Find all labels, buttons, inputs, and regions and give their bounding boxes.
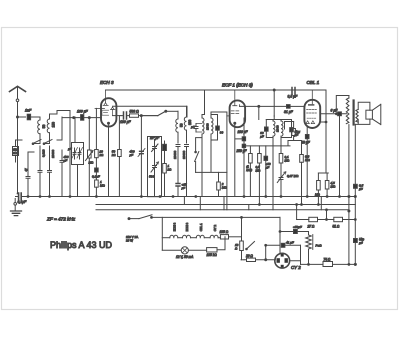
- svg-text:150: 150: [52, 122, 56, 128]
- svg-text:250 µF: 250 µF: [236, 149, 248, 153]
- wire IF1 return: [196, 140, 227, 172]
- wire IF1 to ECF1 grid: [211, 112, 227, 116]
- resistor 500 ohm: [130, 114, 142, 117]
- svg-text:ECH 3: ECH 3: [185, 222, 189, 231]
- electrolytic +50uF right: [354, 238, 365, 245]
- wire IF1 secondary frame: [211, 115, 218, 141]
- svg-text:0,07 MΩ: 0,07 MΩ: [287, 174, 299, 178]
- capacitor 0.1uF in chassis lead: [18, 193, 25, 200]
- band switch S1: [32, 140, 41, 145]
- volume pot with arrow: [277, 172, 286, 197]
- cap +25uF: [176, 184, 180, 197]
- resistor 4.5M a: [315, 173, 320, 205]
- electrolytic 50uF: [264, 146, 271, 197]
- svg-text:500: 500: [149, 175, 154, 179]
- ECF1 cathode leg: [235, 127, 242, 197]
- svg-text:3,5 µF: 3,5 µF: [288, 95, 299, 99]
- ECH3 anode wire: [113, 106, 188, 117]
- wire IF1 switch branch: [196, 138, 202, 173]
- CBL1 cathode: [306, 128, 308, 135]
- speaker LS: [366, 104, 381, 124]
- vertical 347.8 transformer return: [348, 210, 350, 212]
- svg-text:µF: µF: [64, 159, 68, 163]
- wire rail to IF2: [273, 90, 275, 116]
- transformer core: [353, 101, 355, 125]
- svg-text:1M: 1M: [296, 130, 301, 134]
- svg-text:90: 90: [220, 131, 224, 135]
- svg-text:MΩ: MΩ: [100, 183, 105, 187]
- CY2 rectifier V4: [275, 253, 290, 268]
- svg-text:0,1µF: 0,1µF: [18, 200, 28, 204]
- ECF1 grid return: [226, 116, 228, 210]
- switch near dropper: [246, 242, 255, 250]
- svg-text:100 µF: 100 µF: [77, 110, 89, 114]
- osc switch: [158, 110, 167, 115]
- CBL1 screen feed: [320, 121, 326, 123]
- power line bottom left: [241, 259, 244, 261]
- svg-text:100 µF: 100 µF: [238, 130, 249, 134]
- junction dots on buses: [69, 196, 71, 198]
- cap 47: [24, 152, 30, 193]
- chassis bus: [24, 196, 355, 198]
- svg-text:12 V, 50 mA: 12 V, 50 mA: [176, 255, 193, 259]
- svg-text:1000: 1000: [205, 123, 209, 130]
- resistor 27 ohm: [307, 217, 318, 228]
- output transformer T1 primary: [320, 96, 349, 265]
- CY2 right to bottom line: [290, 261, 301, 265]
- bottom power line: [301, 263, 356, 265]
- resistor 51 ohm: [333, 217, 343, 228]
- rail corner down to resistors: [325, 90, 327, 173]
- resistor 4.5M b: [325, 173, 336, 197]
- svg-text:µF: µF: [191, 125, 195, 129]
- resistor R a: [246, 146, 252, 197]
- resistor 1M: [13, 140, 19, 162]
- svg-text:0,010: 0,010: [42, 149, 46, 157]
- bus B: [96, 204, 355, 206]
- svg-text:51 Ω: 51 Ω: [333, 224, 340, 228]
- capacitor 1nF: [27, 114, 40, 120]
- small resistor on dark column: [163, 164, 172, 197]
- lamp: [181, 247, 188, 254]
- IF1 padder cap: [191, 124, 198, 133]
- IF1 tuning cap: [216, 121, 224, 135]
- wire antenna to input: [18, 116, 26, 118]
- osc coil La: [176, 111, 184, 143]
- svg-text:Philips A 43 UD: Philips A 43 UD: [50, 240, 113, 250]
- svg-text:+50µF: +50µF: [293, 225, 302, 229]
- AVC resistor on IF return: [217, 172, 228, 196]
- antenna coil L1: [38, 117, 46, 140]
- svg-text:50: 50: [180, 123, 184, 127]
- caps 10000: [173, 145, 180, 184]
- svg-text:185 Ω: 185 Ω: [220, 230, 229, 234]
- heater CY2: [210, 225, 218, 238]
- svg-text:ECH 3: ECH 3: [173, 222, 177, 231]
- cap 6uF: [338, 112, 347, 197]
- 41uF line: [266, 245, 280, 259]
- drops from buses region verticals: [184, 197, 321, 220]
- svg-text:µF: µF: [266, 165, 270, 169]
- CBL1 tube U3: [304, 90, 320, 128]
- cap 0.5uF right: [354, 124, 364, 264]
- ECH3 tube U1: [95, 90, 116, 127]
- resistor 20k: [95, 150, 99, 158]
- switch on heater line: [139, 215, 152, 219]
- band switch S2: [43, 140, 52, 145]
- dropper resistor vertical: [235, 217, 243, 259]
- svg-text:CBL 1: CBL 1: [307, 80, 320, 85]
- node anode junction: [258, 105, 260, 107]
- CY2 top feed: [279, 217, 281, 253]
- wire ECF1 anode: [240, 105, 287, 107]
- top rail cap 3.5uF: [292, 88, 295, 95]
- wire antenna down to chassis: [17, 117, 19, 194]
- svg-text:MΩ: MΩ: [315, 193, 320, 197]
- padding trimmer box: [72, 143, 84, 165]
- wire IF1 primary leg: [201, 143, 203, 197]
- wires grid left rf: [57, 111, 70, 197]
- ground: [11, 211, 22, 216]
- cap 10000 column2: [48, 146, 56, 193]
- wire top of L2: [50, 111, 58, 115]
- heater feed line 27/51: [297, 219, 356, 221]
- svg-text:1nF: 1nF: [25, 109, 32, 113]
- osc coil Lb: [184, 106, 192, 143]
- svg-text:PαΩ: PαΩ: [316, 244, 323, 248]
- heater top line: [129, 217, 280, 218]
- svg-text:kΩ: kΩ: [168, 167, 173, 171]
- diode load resistor: [292, 122, 301, 141]
- svg-text:µF: µF: [182, 186, 186, 190]
- cap 0.010 column1: [38, 146, 46, 193]
- resistor 50k: [118, 150, 122, 157]
- resistor 20 ohm: [244, 254, 275, 262]
- misc verticals to chassis: [74, 117, 76, 143]
- svg-text:MΩ: MΩ: [305, 158, 310, 162]
- svg-text:µF: µF: [130, 153, 134, 157]
- cap 0.1uF on x96: [92, 168, 100, 179]
- svg-text:185 kΩ: 185 kΩ: [207, 253, 218, 257]
- CBL1 grid wire: [290, 105, 304, 107]
- heater ECH3: [170, 222, 178, 237]
- svg-text:MΩ: MΩ: [256, 168, 261, 172]
- barretter: [306, 232, 323, 265]
- svg-text:pF: pF: [259, 134, 264, 138]
- svg-text:ZF = 472 kHz: ZF = 472 kHz: [46, 217, 76, 222]
- antenna: [10, 86, 26, 117]
- svg-text:µF: µF: [68, 147, 72, 151]
- svg-text:MΩ: MΩ: [285, 158, 290, 162]
- svg-text:MΩ): MΩ): [246, 168, 252, 172]
- resistor 74 ohm: [323, 258, 333, 267]
- svg-text:47: 47: [24, 168, 28, 172]
- svg-text:CY 2: CY 2: [291, 265, 301, 270]
- svg-text:kΩ: kΩ: [112, 153, 117, 157]
- svg-text:27 Ω: 27 Ω: [307, 224, 315, 228]
- svg-text:180 µF: 180 µF: [120, 120, 132, 124]
- shield box: [148, 137, 162, 197]
- wire L1 bottom to switch: [33, 140, 40, 144]
- svg-text:10000: 10000: [173, 150, 177, 159]
- svg-text:20 Ω: 20 Ω: [245, 254, 253, 258]
- bus C: [96, 209, 349, 211]
- potentiometer MOhm: [86, 150, 94, 161]
- svg-text:µF: µF: [359, 187, 363, 191]
- antenna coil L2: [47, 114, 55, 140]
- svg-text:MΩ: MΩ: [331, 184, 336, 188]
- svg-text:50: 50: [42, 124, 46, 128]
- connector: [14, 203, 17, 206]
- resistor 185 ohm: [220, 230, 242, 239]
- cathode chain caps: [243, 118, 245, 137]
- svg-text:10000: 10000: [182, 150, 186, 159]
- svg-text:74 Ω: 74 Ω: [324, 258, 331, 262]
- resistor 0.6M right of CBL1 cathode: [294, 141, 302, 155]
- svg-text:1000: 1000: [276, 125, 280, 132]
- svg-text:CY 2: CY 2: [213, 225, 217, 232]
- switch IF1 branch: [195, 151, 199, 161]
- cap 488 pF: [60, 150, 69, 197]
- svg-text:10000: 10000: [51, 149, 55, 158]
- screen feed wires mid: [204, 90, 206, 98]
- trimmer a: [152, 140, 159, 161]
- svg-text:31 µF: 31 µF: [284, 110, 294, 114]
- trimmer cap 400uF on x141: [138, 116, 145, 197]
- top rail: [106, 89, 327, 91]
- svg-text:41 µF: 41 µF: [286, 241, 294, 245]
- pot 500 in box: [151, 160, 159, 197]
- output wire of ECH3 to 500ohm: [113, 115, 122, 117]
- cap 180uF: [121, 112, 130, 119]
- svg-text:kΩ: kΩ: [100, 153, 105, 157]
- svg-text:MΩ: MΩ: [89, 161, 94, 165]
- svg-text:ECH 3: ECH 3: [100, 80, 114, 85]
- svg-text:3Ω: 3Ω: [13, 151, 18, 155]
- wire into tube g2: [95, 108, 97, 149]
- svg-text:500 Ω: 500 Ω: [130, 110, 140, 114]
- grid cap 100uF: [62, 115, 101, 121]
- svg-text:20 W: 20 W: [126, 239, 133, 243]
- node A: [17, 116, 19, 118]
- svg-text:0,1µF: 0,1µF: [92, 175, 100, 179]
- IF transformer 1: [202, 115, 209, 144]
- wire IF1 primary feed: [202, 98, 205, 115]
- heater ECF1: [183, 222, 191, 237]
- electrolytic 50uF power: [280, 231, 293, 233]
- heater chain bracket: [161, 217, 163, 250]
- resistor 185 kohm: [207, 237, 226, 257]
- mains squiggle arrow: [359, 238, 362, 244]
- left mid columns: [89, 116, 119, 197]
- cap dark column: [163, 141, 167, 164]
- svg-text:ECF 1 (ECH 3): ECF 1 (ECH 3): [222, 83, 253, 88]
- svg-text:CBL 1: CBL 1: [199, 223, 203, 231]
- heater CBL1: [196, 223, 204, 238]
- ECF1 tube U2: [227, 90, 245, 127]
- svg-text:6 µF: 6 µF: [331, 109, 339, 113]
- output transformer T1 secondary: [355, 102, 370, 124]
- IF transformer 2: [259, 116, 298, 210]
- resistor 1M low: [95, 180, 106, 187]
- svg-text:50 µF: 50 µF: [302, 141, 311, 145]
- resistor 0.1: [279, 154, 290, 174]
- wire anode to IF2: [258, 106, 260, 119]
- cap 31uF: [287, 105, 291, 109]
- resistor R b: [256, 146, 262, 205]
